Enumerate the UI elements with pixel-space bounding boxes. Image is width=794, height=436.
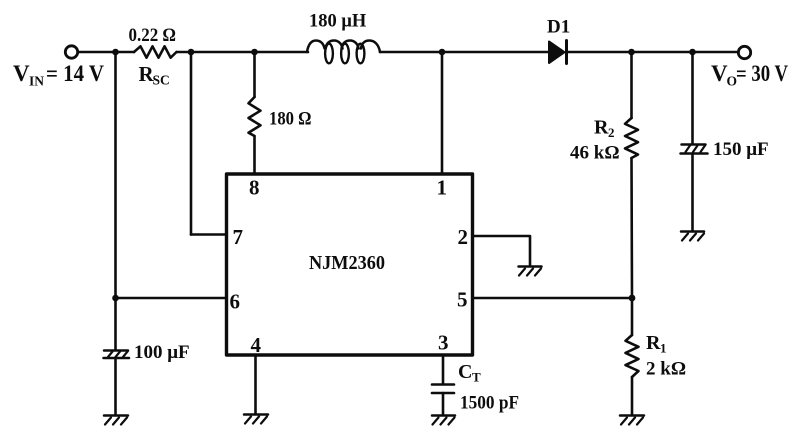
- svg-text:2 kΩ: 2 kΩ: [646, 359, 686, 380]
- IC U1 NJM2360 box: [227, 174, 473, 355]
- node junction at x=692.5 top rail: [689, 49, 696, 56]
- capacitor 150uF top plate hatched: [681, 145, 708, 154]
- wire R1 to ground: [631, 377, 634, 415]
- label CT: [458, 361, 481, 385]
- wire top rail to R2: [630, 52, 633, 118]
- diode D1 cathode bar: [565, 41, 568, 64]
- node junction at x=191 top rail: [188, 49, 195, 56]
- node junction at pin6 wire: [112, 295, 119, 302]
- node junction at x=442 top rail: [439, 49, 446, 56]
- node junction pin5 and divider: [629, 295, 636, 302]
- wire R2 to feedback node: [630, 158, 633, 298]
- svg-text:6: 6: [230, 290, 241, 314]
- wire pin7 branch vertical x=191: [190, 52, 193, 235]
- wire feedback node to R1: [631, 298, 634, 335]
- svg-text:150 μF: 150 μF: [713, 139, 769, 160]
- resistor R2 46k: [625, 118, 638, 158]
- ground under CT: [432, 416, 455, 425]
- svg-text:3: 3: [438, 331, 449, 355]
- node junction at x=631.5 top rail: [628, 49, 635, 56]
- wire diode to output terminal: [567, 51, 739, 54]
- ground at pin2: [519, 267, 542, 276]
- svg-text:= 30 V: = 30 V: [736, 61, 788, 86]
- wire x=254.5 top rail to resistor 180 ohm: [253, 52, 256, 97]
- svg-text:D1: D1: [547, 17, 570, 38]
- wire pin1 branch x=442: [441, 52, 444, 173]
- resistor 180 ohm: [249, 97, 261, 136]
- capacitor CT plate top: [432, 383, 454, 386]
- input terminal VIN: [65, 46, 77, 58]
- svg-text:V: V: [13, 61, 30, 86]
- inductor L1 loop 3: [357, 44, 365, 64]
- svg-text:1: 1: [437, 176, 448, 200]
- svg-text:8: 8: [249, 176, 260, 200]
- label R2: [594, 117, 615, 141]
- svg-text:5: 5: [457, 288, 468, 312]
- resistor RSC 0.22 ohm: [134, 46, 177, 57]
- wire junction to capacitor 100uF: [114, 298, 117, 350]
- output terminal VO: [738, 46, 750, 58]
- svg-text:C: C: [458, 361, 472, 383]
- wire resistor 180 ohm to pin8: [253, 136, 256, 173]
- wire capacitor CT to ground: [442, 393, 445, 415]
- svg-text:46 kΩ: 46 kΩ: [570, 143, 620, 164]
- wire pin5 horizontal to feedback node: [473, 297, 633, 300]
- wire left branch x=115 down to pin6 wire: [114, 52, 117, 298]
- capacitor 100uF top plate hatched: [104, 351, 130, 359]
- wire inductor to diode: [380, 51, 549, 54]
- svg-text:4: 4: [251, 333, 262, 357]
- wire capacitor 150uF to ground: [691, 154, 694, 231]
- svg-text:180 μH: 180 μH: [309, 12, 367, 32]
- wire output branch to capacitor 150uF: [691, 52, 694, 144]
- svg-text:7: 7: [233, 225, 244, 249]
- svg-text:IN: IN: [29, 74, 44, 89]
- wire pin4 stub to ground: [254, 355, 257, 414]
- wire pin7 jog to IC: [191, 233, 227, 236]
- inductor L1 180uH humps: [307, 41, 380, 53]
- svg-text:1: 1: [660, 341, 667, 356]
- ground under R1: [620, 416, 644, 425]
- svg-text:100 μF: 100 μF: [134, 342, 190, 363]
- resistor R1 2k: [626, 335, 639, 377]
- label RSC: [139, 62, 170, 88]
- wire pin6 horizontal: [116, 297, 227, 300]
- svg-text:2: 2: [608, 125, 615, 140]
- label VIN = 14 V: [13, 61, 104, 89]
- label VO = 30 V: [711, 61, 788, 89]
- svg-text:T: T: [472, 370, 481, 385]
- svg-text:R: R: [646, 332, 661, 354]
- diode D1 triangle: [549, 42, 565, 64]
- inductor L1 loop 2: [341, 44, 349, 64]
- wire pin2 to ground jog: [473, 236, 531, 266]
- node junction at x=115 top rail: [112, 49, 119, 56]
- ground under 100uF: [104, 416, 128, 425]
- svg-text:R: R: [594, 117, 609, 139]
- capacitor CT plate bottom: [432, 392, 454, 395]
- wire capacitor 100uF to ground: [114, 358, 117, 415]
- svg-text:1500 pF: 1500 pF: [460, 393, 519, 414]
- svg-text:= 14 V: = 14 V: [46, 61, 104, 86]
- svg-text:V: V: [711, 61, 728, 86]
- ground under pin4: [244, 415, 268, 424]
- label R1: [646, 332, 667, 356]
- ground under 150uF: [681, 232, 704, 241]
- svg-text:180 Ω: 180 Ω: [269, 110, 312, 130]
- wire pin3 stub to capacitor CT: [442, 355, 445, 384]
- svg-text:0.22 Ω: 0.22 Ω: [129, 26, 177, 46]
- svg-text:2: 2: [458, 225, 469, 249]
- node junction at x=254.5 top rail: [251, 49, 258, 56]
- inductor L1 loop 1: [325, 44, 333, 64]
- wire input terminal to RSC: [78, 51, 134, 54]
- svg-text:NJM2360: NJM2360: [309, 252, 385, 274]
- svg-text:SC: SC: [153, 73, 170, 88]
- wire RSC to inductor: [177, 51, 309, 54]
